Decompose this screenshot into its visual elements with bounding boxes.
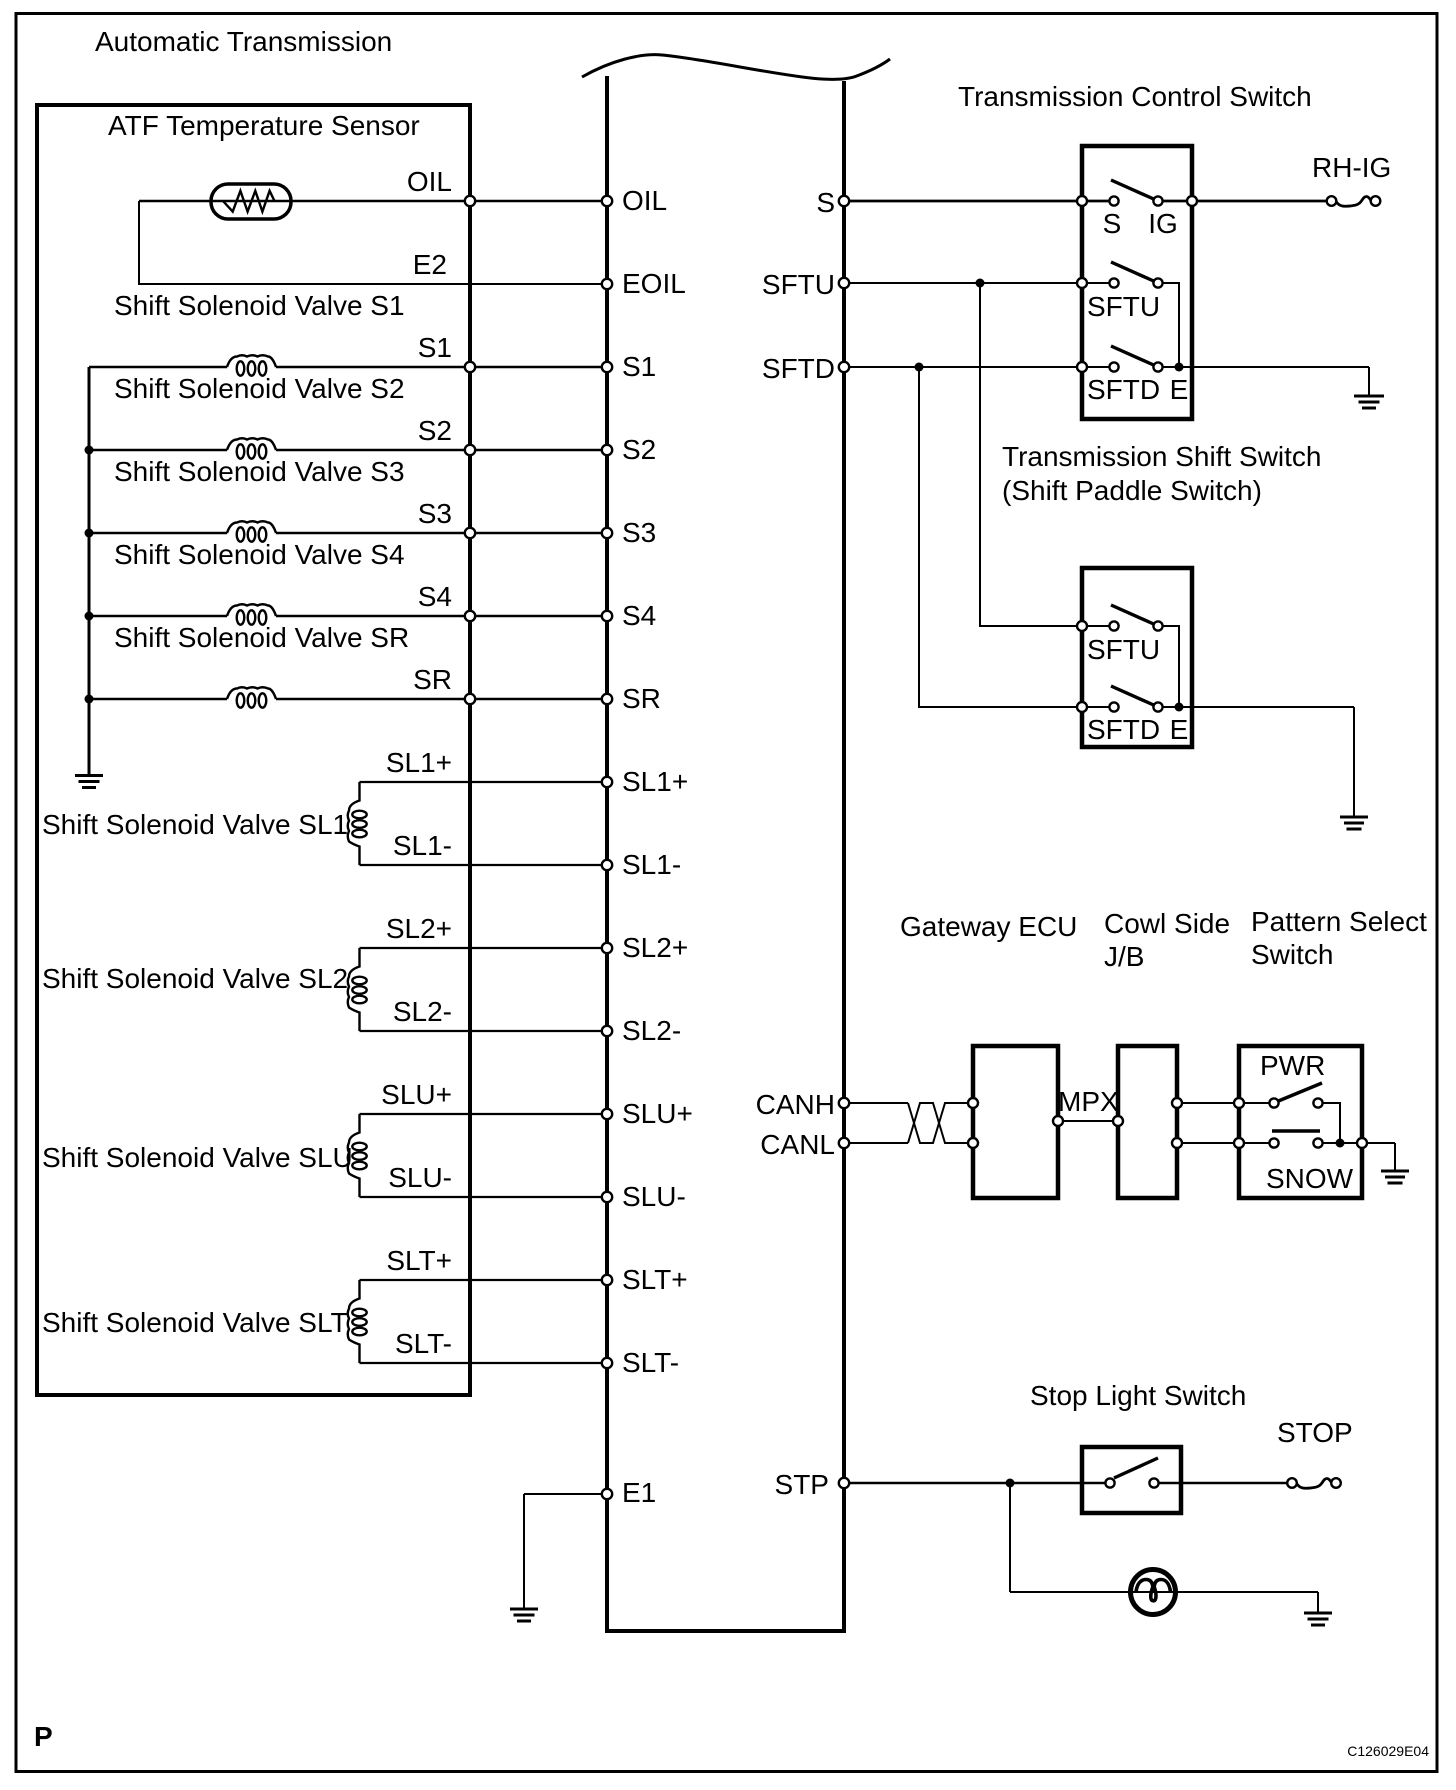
svg-text:Shift Solenoid Valve S4: Shift Solenoid Valve S4 (114, 539, 405, 570)
svg-text:Stop Light Switch: Stop Light Switch (1030, 1380, 1246, 1411)
svg-text:S4: S4 (622, 600, 656, 631)
svg-text:RH-IG: RH-IG (1312, 152, 1391, 183)
svg-text:Transmission Shift Switch: Transmission Shift Switch (1002, 441, 1322, 472)
svg-text:SLT-: SLT- (622, 1347, 679, 1378)
svg-text:SR: SR (413, 664, 452, 695)
svg-text:J/B: J/B (1104, 941, 1144, 972)
svg-text:SL1+: SL1+ (386, 747, 452, 778)
svg-text:S1: S1 (622, 351, 656, 382)
svg-text:(Shift Paddle Switch): (Shift Paddle Switch) (1002, 475, 1262, 506)
svg-text:Switch: Switch (1251, 939, 1333, 970)
svg-text:Shift Solenoid Valve SL1: Shift Solenoid Valve SL1 (42, 809, 348, 840)
svg-text:Pattern Select: Pattern Select (1251, 906, 1427, 937)
svg-text:IG: IG (1148, 208, 1178, 239)
svg-text:SLU+: SLU+ (381, 1079, 452, 1110)
svg-text:SFTU: SFTU (762, 269, 835, 300)
svg-text:SLT-: SLT- (395, 1328, 452, 1359)
svg-text:SFTU: SFTU (1087, 634, 1160, 665)
svg-text:STP: STP (775, 1469, 829, 1500)
svg-text:Gateway ECU: Gateway ECU (900, 911, 1077, 942)
svg-text:MPX: MPX (1058, 1086, 1119, 1117)
svg-text:E: E (1170, 714, 1189, 745)
svg-text:SR: SR (622, 683, 661, 714)
svg-text:SL1+: SL1+ (622, 766, 688, 797)
svg-text:S3: S3 (418, 498, 452, 529)
svg-text:Shift Solenoid Valve S2: Shift Solenoid Valve S2 (114, 373, 405, 404)
svg-text:P: P (34, 1721, 53, 1752)
svg-text:Shift Solenoid Valve S3: Shift Solenoid Valve S3 (114, 456, 405, 487)
svg-text:C126029E04: C126029E04 (1347, 1743, 1429, 1759)
svg-text:Transmission Control Switch: Transmission Control Switch (958, 81, 1312, 112)
svg-text:Shift Solenoid Valve SL2: Shift Solenoid Valve SL2 (42, 963, 348, 994)
svg-text:SLU+: SLU+ (622, 1098, 693, 1129)
svg-text:PWR: PWR (1260, 1050, 1325, 1081)
svg-text:SLT+: SLT+ (386, 1245, 452, 1276)
svg-text:E: E (1170, 374, 1189, 405)
svg-text:CANL: CANL (760, 1129, 835, 1160)
svg-text:SNOW: SNOW (1266, 1163, 1354, 1194)
svg-text:Shift Solenoid Valve SR: Shift Solenoid Valve SR (114, 622, 409, 653)
svg-text:SLU-: SLU- (622, 1181, 686, 1212)
svg-text:OIL: OIL (407, 166, 452, 197)
svg-text:SL2+: SL2+ (622, 932, 688, 963)
svg-text:S2: S2 (622, 434, 656, 465)
svg-text:STOP: STOP (1277, 1417, 1353, 1448)
svg-text:S3: S3 (622, 517, 656, 548)
svg-text:S1: S1 (418, 332, 452, 363)
svg-text:SL1-: SL1- (622, 849, 681, 880)
svg-text:SL1-: SL1- (393, 830, 452, 861)
svg-text:SL2-: SL2- (393, 996, 452, 1027)
svg-text:SL2+: SL2+ (386, 913, 452, 944)
svg-text:Automatic Transmission: Automatic Transmission (95, 26, 392, 57)
svg-text:S: S (816, 187, 835, 218)
svg-text:S: S (1103, 208, 1122, 239)
svg-text:SLT+: SLT+ (622, 1264, 688, 1295)
svg-text:E2: E2 (413, 249, 447, 280)
svg-text:Cowl Side: Cowl Side (1104, 908, 1230, 939)
svg-text:S2: S2 (418, 415, 452, 446)
svg-text:SFTD: SFTD (762, 353, 835, 384)
svg-text:SLU-: SLU- (388, 1162, 452, 1193)
svg-text:CANH: CANH (756, 1089, 835, 1120)
svg-text:SFTD: SFTD (1087, 374, 1160, 405)
svg-text:Shift Solenoid Valve SLU: Shift Solenoid Valve SLU (42, 1142, 353, 1173)
svg-text:S4: S4 (418, 581, 452, 612)
svg-text:SFTU: SFTU (1087, 291, 1160, 322)
svg-text:SL2-: SL2- (622, 1015, 681, 1046)
svg-text:Shift Solenoid Valve S1: Shift Solenoid Valve S1 (114, 290, 405, 321)
svg-text:SFTD: SFTD (1087, 714, 1160, 745)
svg-text:ATF Temperature Sensor: ATF Temperature Sensor (108, 110, 420, 141)
svg-text:OIL: OIL (622, 185, 667, 216)
svg-text:EOIL: EOIL (622, 268, 686, 299)
svg-text:E1: E1 (622, 1477, 656, 1508)
svg-text:Shift Solenoid Valve SLT: Shift Solenoid Valve SLT (42, 1307, 348, 1338)
